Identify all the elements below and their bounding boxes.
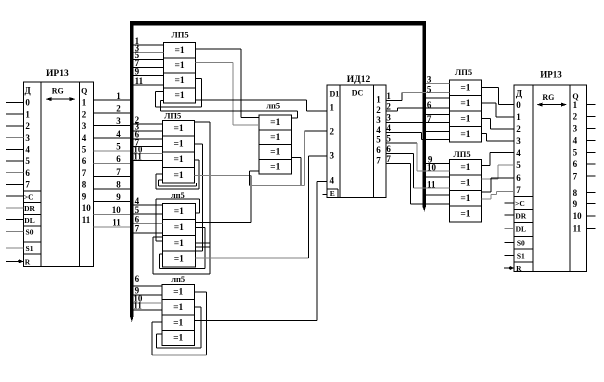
svg-text:3: 3 xyxy=(573,124,578,134)
svg-text:ИР13: ИР13 xyxy=(46,69,69,79)
svg-text:=1: =1 xyxy=(174,140,184,150)
svg-text:7: 7 xyxy=(516,185,521,195)
svg-text:5: 5 xyxy=(573,148,578,158)
svg-text:DR: DR xyxy=(24,204,35,213)
svg-text:=1: =1 xyxy=(270,148,280,158)
svg-text:11: 11 xyxy=(427,179,436,189)
svg-text:=1: =1 xyxy=(460,163,470,173)
svg-text:1: 1 xyxy=(376,95,381,105)
svg-text:7: 7 xyxy=(427,114,432,124)
svg-text:1: 1 xyxy=(573,100,578,110)
svg-text:=1: =1 xyxy=(174,76,184,86)
svg-text:Е: Е xyxy=(330,189,335,198)
svg-text:ЛП5: ЛП5 xyxy=(453,149,470,159)
svg-text:=1: =1 xyxy=(174,124,184,134)
svg-text:6: 6 xyxy=(386,144,391,154)
svg-text:3: 3 xyxy=(427,74,432,84)
svg-text:4: 4 xyxy=(516,148,521,158)
svg-text:=1: =1 xyxy=(174,207,184,217)
svg-text:=1: =1 xyxy=(460,178,470,188)
svg-text:=1: =1 xyxy=(174,239,184,249)
svg-text:2: 2 xyxy=(116,103,121,113)
svg-text:0: 0 xyxy=(25,98,30,108)
svg-text:8: 8 xyxy=(116,180,121,190)
svg-text:ЛП5: ЛП5 xyxy=(455,67,472,77)
svg-text:7: 7 xyxy=(116,167,121,177)
svg-text:8: 8 xyxy=(82,180,87,190)
svg-text:=1: =1 xyxy=(270,118,280,128)
svg-text:10: 10 xyxy=(573,211,583,221)
svg-text:4: 4 xyxy=(116,129,121,139)
svg-text:RG: RG xyxy=(52,87,64,96)
svg-text:=1: =1 xyxy=(460,194,470,204)
svg-text:5: 5 xyxy=(25,156,30,166)
svg-text:3: 3 xyxy=(386,113,391,123)
svg-text:0: 0 xyxy=(516,100,521,110)
svg-text:1: 1 xyxy=(25,109,30,119)
svg-text:9: 9 xyxy=(135,67,140,77)
svg-text:=1: =1 xyxy=(270,133,280,143)
svg-text:=1: =1 xyxy=(460,99,470,109)
svg-text:=1: =1 xyxy=(173,303,183,313)
svg-text:10: 10 xyxy=(427,162,437,172)
svg-text:=1: =1 xyxy=(460,83,470,93)
svg-text:DL: DL xyxy=(516,224,526,233)
svg-text:=1: =1 xyxy=(174,61,184,71)
svg-text:4: 4 xyxy=(573,136,578,146)
svg-text:=1: =1 xyxy=(460,130,470,140)
svg-text:ИД12: ИД12 xyxy=(347,75,371,85)
svg-text:5: 5 xyxy=(116,142,121,152)
svg-text:11: 11 xyxy=(82,215,91,225)
svg-text:S0: S0 xyxy=(26,228,34,237)
svg-text:11: 11 xyxy=(133,300,142,310)
svg-text:2: 2 xyxy=(25,121,30,131)
svg-text:ЛП5: ЛП5 xyxy=(171,29,188,39)
svg-text:1: 1 xyxy=(516,112,521,122)
svg-text:6: 6 xyxy=(25,168,30,178)
svg-text:7: 7 xyxy=(82,168,87,178)
svg-text:4: 4 xyxy=(330,176,335,186)
svg-text:3: 3 xyxy=(516,136,521,146)
svg-text:S1: S1 xyxy=(26,244,34,253)
svg-text:RG: RG xyxy=(542,93,554,102)
svg-text:Q: Q xyxy=(81,87,87,96)
svg-text:7: 7 xyxy=(135,224,140,234)
svg-text:11: 11 xyxy=(112,218,121,228)
svg-text:6: 6 xyxy=(573,159,578,169)
svg-text:DR: DR xyxy=(515,211,526,220)
svg-text:3: 3 xyxy=(25,133,30,143)
svg-text:5: 5 xyxy=(82,144,87,154)
svg-text:9: 9 xyxy=(116,192,121,202)
svg-text:2: 2 xyxy=(82,109,87,119)
svg-text:7: 7 xyxy=(573,171,578,181)
svg-text:11: 11 xyxy=(573,224,582,234)
svg-text:DL: DL xyxy=(24,216,34,225)
svg-text:ИР13: ИР13 xyxy=(540,70,562,80)
svg-text:9: 9 xyxy=(82,191,87,201)
svg-text:=1: =1 xyxy=(270,162,280,172)
svg-text:1: 1 xyxy=(330,103,335,113)
svg-text:2: 2 xyxy=(573,112,578,122)
svg-text:>C: >C xyxy=(515,199,525,208)
svg-text:=1: =1 xyxy=(460,210,470,220)
svg-text:=1: =1 xyxy=(174,155,184,165)
svg-text:R: R xyxy=(516,264,522,273)
svg-text:2: 2 xyxy=(516,124,521,134)
svg-text:2: 2 xyxy=(386,102,391,112)
svg-text:1: 1 xyxy=(116,91,121,101)
svg-text:6: 6 xyxy=(116,154,121,164)
svg-text:Д: Д xyxy=(516,88,523,98)
svg-text:2: 2 xyxy=(330,127,335,137)
svg-text:10: 10 xyxy=(112,205,122,215)
svg-text:S0: S0 xyxy=(517,238,525,247)
svg-text:D1: D1 xyxy=(330,90,340,99)
svg-text:6: 6 xyxy=(376,145,381,155)
svg-text:DC: DC xyxy=(352,89,364,98)
svg-text:5: 5 xyxy=(427,84,432,94)
svg-text:3: 3 xyxy=(376,115,381,125)
svg-text:3: 3 xyxy=(116,116,121,126)
svg-text:лп5: лп5 xyxy=(171,274,185,284)
svg-text:10: 10 xyxy=(82,203,92,213)
svg-text:4: 4 xyxy=(25,144,30,154)
svg-text:лп5: лп5 xyxy=(266,100,280,110)
svg-text:3: 3 xyxy=(330,151,335,161)
svg-text:S1: S1 xyxy=(517,252,525,261)
svg-text:1: 1 xyxy=(82,98,87,108)
svg-text:ЛП5: ЛП5 xyxy=(164,110,181,120)
svg-text:>C: >C xyxy=(24,192,34,201)
svg-text:=1: =1 xyxy=(173,318,183,328)
svg-text:6: 6 xyxy=(516,173,521,183)
svg-text:=1: =1 xyxy=(174,91,184,101)
svg-text:=1: =1 xyxy=(173,334,183,344)
svg-text:=1: =1 xyxy=(460,114,470,124)
svg-text:8: 8 xyxy=(573,188,578,198)
svg-text:лп5: лп5 xyxy=(171,190,185,200)
svg-text:Д: Д xyxy=(24,85,31,95)
svg-text:3: 3 xyxy=(82,121,87,131)
svg-text:4: 4 xyxy=(386,123,391,133)
svg-text:7: 7 xyxy=(25,180,30,190)
svg-text:9: 9 xyxy=(573,199,578,209)
svg-text:6: 6 xyxy=(427,100,432,110)
svg-text:R: R xyxy=(25,257,31,266)
svg-text:4: 4 xyxy=(82,133,87,143)
svg-text:=1: =1 xyxy=(174,46,184,56)
svg-text:5: 5 xyxy=(516,160,521,170)
svg-text:=1: =1 xyxy=(174,255,184,265)
svg-text:1: 1 xyxy=(386,91,391,101)
svg-text:2: 2 xyxy=(376,105,381,115)
svg-text:6: 6 xyxy=(135,274,140,284)
svg-text:7: 7 xyxy=(386,154,391,164)
svg-text:=1: =1 xyxy=(173,288,183,298)
svg-text:6: 6 xyxy=(82,156,87,166)
svg-text:11: 11 xyxy=(135,76,144,86)
svg-text:5: 5 xyxy=(376,135,381,145)
svg-text:=1: =1 xyxy=(174,223,184,233)
svg-text:11: 11 xyxy=(133,152,142,162)
svg-text:7: 7 xyxy=(376,155,381,165)
svg-text:=1: =1 xyxy=(174,171,184,181)
svg-text:5: 5 xyxy=(386,134,391,144)
svg-text:4: 4 xyxy=(376,125,381,135)
